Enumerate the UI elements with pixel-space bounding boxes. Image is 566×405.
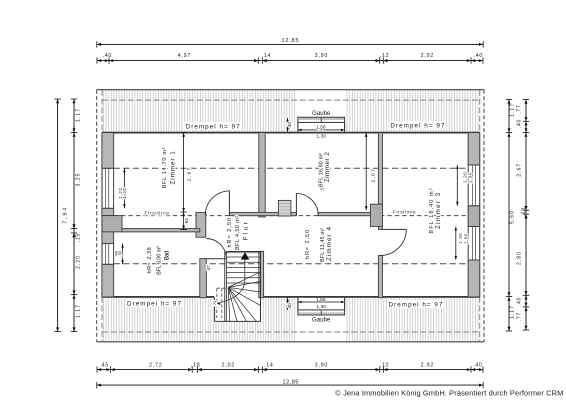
svg-text:Drempel h= 97: Drempel h= 97 [390,122,444,129]
svg-text:.40: .40 [474,53,483,59]
svg-text:BFL 11,45 m²: BFL 11,45 m² [320,228,326,262]
svg-text:,12: ,12 [380,362,389,368]
svg-text:© Jena Immobilien König GmbH.: © Jena Immobilien König GmbH. Präsentier… [335,388,563,397]
svg-text:,12: ,12 [380,53,389,59]
svg-text:.14: .14 [262,53,271,59]
svg-text:hR= 2,38: hR= 2,38 [147,247,153,273]
svg-text:1,30: 1,30 [316,133,326,139]
svg-text:,13: ,13 [521,208,527,217]
svg-text:7,94: 7,94 [62,208,68,224]
svg-text:3,90: 3,90 [315,362,328,368]
svg-text:.40: .40 [516,119,522,128]
svg-text:,15: ,15 [75,234,81,243]
svg-text:hR= 2,50: hR= 2,50 [227,218,233,248]
svg-text:1.17: 1.17 [75,109,81,122]
svg-text:Gaube: Gaube [312,317,331,324]
svg-text:.63: .63 [184,218,189,225]
svg-text:Zimmer 4: Zimmer 4 [326,227,333,261]
svg-text:5,60: 5,60 [510,211,516,224]
svg-text:Firstlinie: Firstlinie [144,211,169,216]
svg-text:1.40: 1.40 [122,188,127,199]
svg-text:2,02: 2,02 [222,362,235,368]
svg-text:4,97: 4,97 [178,53,191,59]
svg-text:1.50: 1.50 [468,172,473,183]
svg-text:3,90: 3,90 [315,53,328,59]
svg-text:.40: .40 [287,303,292,310]
svg-text:1.50: 1.50 [463,233,468,244]
svg-text:.14: .14 [264,362,273,368]
svg-text:Bad: Bad [164,250,171,260]
svg-text:Drempel h= 97: Drempel h= 97 [186,123,240,130]
svg-text:1.17: 1.17 [510,306,516,319]
svg-text:.40: .40 [516,297,522,306]
svg-text:.70: .70 [118,250,123,257]
svg-text:12,85: 12,85 [283,380,299,386]
svg-text:BFL 4,50 m²: BFL 4,50 m² [235,216,241,250]
svg-text:12,85: 12,85 [282,38,299,44]
svg-text:2,67: 2,67 [371,169,377,183]
svg-text:1.17: 1.17 [75,305,81,318]
svg-text:hR= 2,50: hR= 2,50 [305,230,311,259]
svg-text:Firstlinie: Firstlinie [393,209,416,214]
svg-text:BFL 6,00 m²: BFL 6,00 m² [157,246,163,275]
svg-text:Zimmer 1: Zimmer 1 [170,151,177,185]
svg-text:3,25: 3,25 [75,173,81,186]
svg-text:Zimmer 3: Zimmer 3 [435,193,442,229]
svg-text:.70: .70 [212,300,217,306]
svg-text:.40: .40 [473,362,482,368]
svg-text:2,92: 2,92 [421,53,434,59]
svg-text:BFL 14,70 m²: BFL 14,70 m² [162,147,168,188]
svg-text:2,92: 2,92 [421,362,434,368]
svg-text:.40: .40 [287,122,292,129]
svg-text:1.17: 1.17 [510,104,516,117]
svg-text:2,20: 2,20 [75,256,81,269]
svg-text:2,67: 2,67 [516,164,522,177]
svg-text:Drempel h= 97: Drempel h= 97 [127,300,181,307]
svg-text:2,67: 2,67 [187,167,193,181]
svg-text:.77: .77 [516,313,522,322]
svg-text:1,56: 1,56 [316,297,326,303]
svg-text:BFL 18,40 m²: BFL 18,40 m² [429,188,435,233]
svg-text:Drempel h= 97: Drempel h= 97 [389,302,443,309]
svg-text:.77: .77 [516,105,522,114]
svg-text:2,80: 2,80 [516,252,522,265]
svg-text:.40: .40 [103,53,112,59]
svg-text:2,72: 2,72 [149,362,162,368]
svg-text:.57: .57 [206,265,211,272]
svg-text:1,56: 1,56 [316,125,326,131]
svg-text:BFL 16,80 m²: BFL 16,80 m² [318,153,324,187]
svg-text:,18: ,18 [191,362,200,368]
svg-text:.45: .45 [100,362,109,368]
svg-text:1,30: 1,30 [316,304,326,310]
svg-text:1.20: 1.20 [458,233,463,244]
svg-text:Gaube: Gaube [312,110,331,117]
svg-text:Zimmer 2: Zimmer 2 [324,152,331,183]
